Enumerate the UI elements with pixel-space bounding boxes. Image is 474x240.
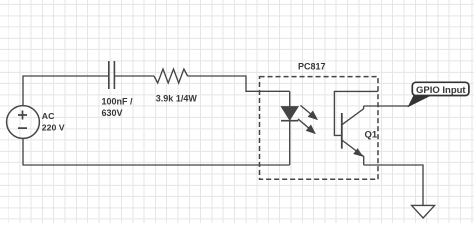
svg-text:3.9k 1/4W: 3.9k 1/4W bbox=[156, 94, 198, 104]
svg-text:Q1: Q1 bbox=[365, 130, 378, 141]
wire: AC top lead up and right to capacitor bbox=[23, 76, 108, 106]
capacitor C1 value label bbox=[102, 97, 134, 118]
ground symbol bbox=[412, 205, 435, 218]
svg-text:100nF /: 100nF / bbox=[102, 97, 134, 107]
light arrow 1 bbox=[301, 105, 317, 119]
light arrow 2 bbox=[298, 119, 315, 133]
wire: emitter to ground bbox=[364, 165, 423, 205]
svg-text:GPIO Input: GPIO Input bbox=[416, 85, 466, 96]
svg-text:630V: 630V bbox=[102, 108, 123, 118]
LED D1 anode lead bbox=[289, 91, 291, 107]
GPIO Input callout tail bbox=[409, 95, 432, 107]
LED D1 triangle bbox=[281, 107, 298, 120]
wire: bottom return from LED cathode to AC bottom bbox=[23, 139, 290, 165]
AC source V1 circle bbox=[7, 106, 40, 139]
optocoupler U1 dashed outline bbox=[260, 77, 379, 180]
AC source label bbox=[42, 111, 65, 133]
transistor Q1 collector bbox=[342, 106, 364, 125]
wire: capacitor to resistor bbox=[115, 75, 154, 77]
GPIO Input callout box bbox=[412, 82, 469, 95]
LED D1 cathode lead bbox=[289, 122, 291, 166]
wire: collector to GPIO node bbox=[364, 105, 410, 107]
capacitor C1 plates bbox=[109, 61, 115, 89]
wire: resistor to optocoupler LED bbox=[188, 76, 290, 91]
transistor Q1 emitter with arrow bbox=[342, 140, 364, 165]
svg-text:220 V: 220 V bbox=[42, 123, 65, 133]
svg-text:AC: AC bbox=[42, 111, 55, 121]
LED D1 cathode bar bbox=[281, 120, 298, 122]
resistor R1 zigzag bbox=[154, 69, 188, 83]
svg-text:PC817: PC817 bbox=[298, 61, 326, 71]
transistor Q1 base wire to pin 6 bbox=[334, 91, 378, 135]
transistor Q1 base bar bbox=[341, 113, 343, 149]
